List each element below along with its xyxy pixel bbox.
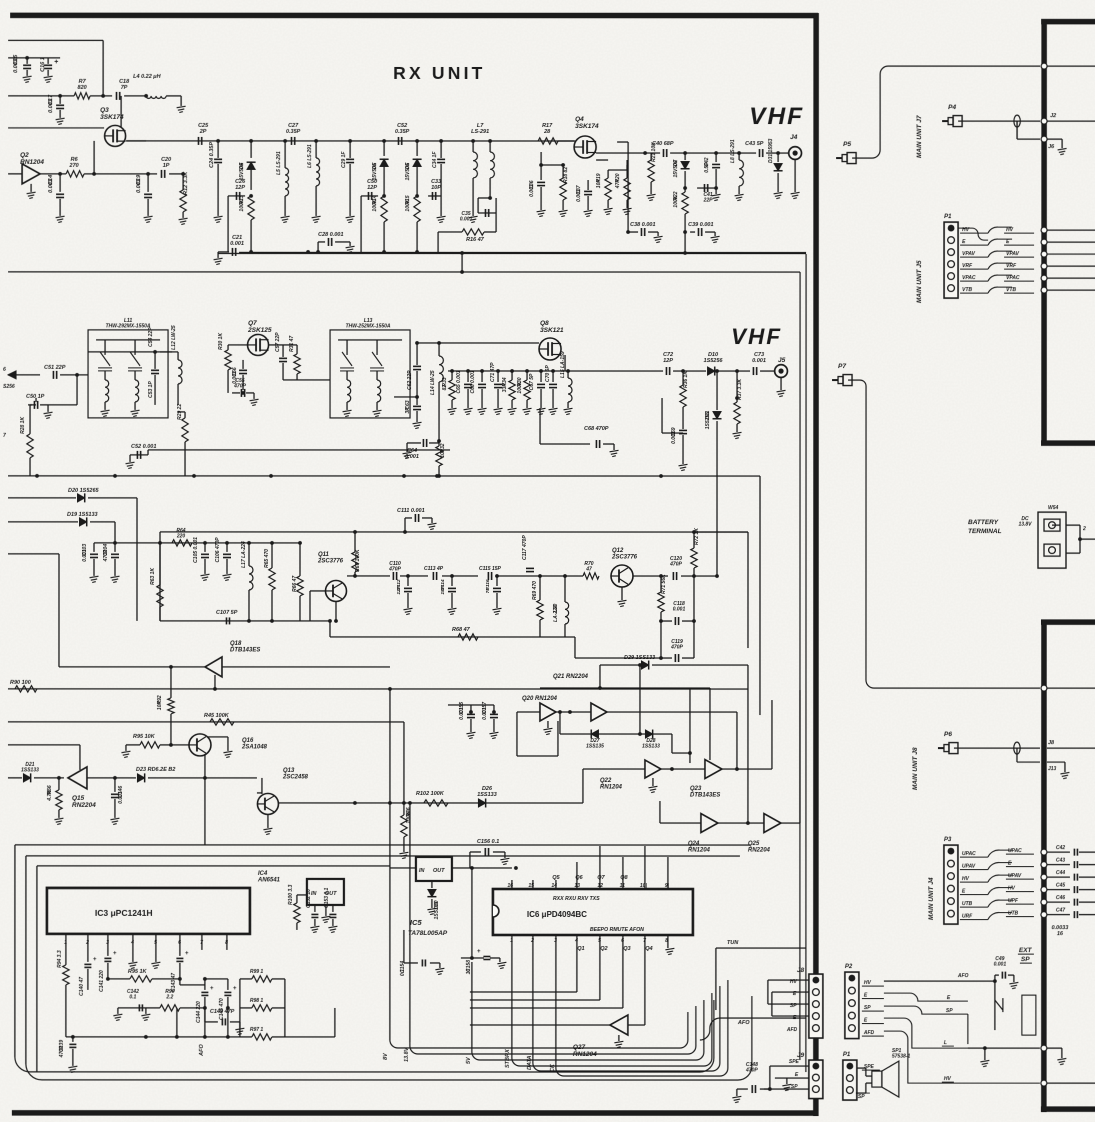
- wire IC5 in: [390, 867, 416, 869]
- J8 wires: [768, 979, 809, 981]
- nested bus 3: [37, 865, 390, 867]
- inductor L20: [563, 574, 567, 578]
- svg-text:URF: URF: [962, 914, 973, 920]
- capacitor C41: [697, 187, 716, 189]
- svg-text:3P: 3P: [405, 407, 411, 414]
- svg-text:0.001: 0.001: [405, 454, 419, 460]
- svg-text:TERMINAL: TERMINAL: [968, 528, 1002, 535]
- svg-text:15V50E: 15V50E: [372, 162, 378, 180]
- resistor R71: [659, 574, 663, 578]
- wire IC6 pin6 route: [622, 944, 624, 1008]
- resistor R21: [650, 153, 652, 160]
- IF box bottom: [160, 620, 330, 622]
- wire Q23 out: [722, 768, 772, 770]
- transistor Q4 3SK174: [574, 136, 596, 158]
- svg-text:7: 7: [200, 940, 203, 946]
- svg-text:470P: 470P: [745, 1068, 758, 1074]
- resistor R46: [403, 803, 405, 815]
- svg-text:R16 47: R16 47: [466, 237, 485, 243]
- IC3 pins: [65, 934, 67, 950]
- svg-text:HV: HV: [962, 876, 970, 882]
- capacitor C38: [640, 228, 642, 236]
- capacitor C153: [332, 905, 334, 912]
- svg-text:470P: 470P: [103, 549, 109, 562]
- IC6 pin8 gnd: [667, 944, 669, 948]
- bus y689: [8, 688, 748, 690]
- svg-text:2SK125: 2SK125: [247, 327, 272, 334]
- svg-text:P5: P5: [843, 141, 851, 148]
- wire Q16 base: [171, 744, 189, 746]
- resistor R66: [58, 778, 60, 790]
- svg-text:0.001: 0.001: [459, 707, 465, 720]
- svg-text:7: 7: [643, 938, 646, 944]
- capacitor C140: [87, 950, 89, 962]
- svg-text:16: 16: [1057, 931, 1064, 937]
- capacitor C50b: [35, 398, 37, 402]
- wire Q11 base: [310, 590, 325, 592]
- svg-text:C16 1: C16 1: [40, 57, 46, 72]
- resistor R68: [458, 634, 478, 640]
- svg-text:P7: P7: [838, 363, 846, 370]
- diode D11: [716, 371, 718, 410]
- bus y476: [8, 475, 760, 477]
- amp Q21: [591, 703, 607, 721]
- capacitor C28: [327, 238, 329, 246]
- svg-text:R30 1K: R30 1K: [218, 333, 224, 350]
- wire IF bottom mid: [330, 636, 575, 638]
- svg-text:EXT: EXT: [1019, 947, 1033, 954]
- wire Q16 collector: [204, 754, 206, 845]
- capacitor C26: [228, 195, 245, 197]
- capacitor C52b: [130, 454, 148, 456]
- wire Q22 gnd: [652, 778, 654, 786]
- svg-text:Q4: Q4: [575, 116, 584, 123]
- P1 border junctions: [1041, 227, 1047, 233]
- bottom bus DATA: [533, 986, 720, 1071]
- svg-text:100K: 100K: [405, 199, 411, 211]
- svg-text:R68 47: R68 47: [452, 627, 471, 633]
- Q20 feedback loop: [516, 712, 518, 756]
- resistor R6: [66, 171, 84, 177]
- resistor R66b: [298, 541, 302, 545]
- capacitor C141: [107, 950, 109, 956]
- svg-text:LS-291: LS-291: [471, 129, 489, 135]
- svg-text:Q5: Q5: [552, 875, 560, 881]
- node R6 left: [58, 172, 62, 176]
- capacitor C67: [539, 369, 543, 373]
- svg-text:P3: P3: [944, 837, 952, 843]
- inductor L15: [566, 369, 570, 373]
- svg-text:R12 3.3K: R12 3.3K: [183, 171, 189, 195]
- svg-text:0.001: 0.001: [136, 179, 142, 193]
- svg-text:UPAC: UPAC: [962, 851, 976, 857]
- capacitor C64: [422, 439, 424, 447]
- main unit border seg2 top cap: [1041, 619, 1095, 625]
- svg-text:DTB143ES: DTB143ES: [230, 648, 260, 654]
- connector J4: [789, 147, 802, 160]
- svg-text:UTB: UTB: [962, 901, 973, 907]
- capacitor C49: [993, 979, 997, 983]
- svg-text:MAIN UNIT J4: MAIN UNIT J4: [928, 877, 935, 920]
- L13 varicap 2: [370, 352, 384, 371]
- diode D23: [137, 774, 144, 782]
- svg-text:L4 0.22 μH: L4 0.22 μH: [133, 74, 161, 80]
- svg-text:C53 1P: C53 1P: [148, 381, 154, 398]
- svg-text:C39 0.001: C39 0.001: [688, 222, 713, 228]
- antenna arrow S256: [8, 371, 16, 379]
- capacitor C56: [239, 369, 247, 371]
- svg-text:15V50E: 15V50E: [239, 162, 245, 180]
- svg-text:470P: 470P: [670, 645, 683, 651]
- svg-text:J13: J13: [1048, 766, 1057, 772]
- svg-text:100K: 100K: [406, 811, 412, 823]
- svg-text:HV: HV: [1008, 886, 1016, 892]
- resistor R12: [181, 172, 185, 176]
- svg-text:1SS133: 1SS133: [642, 744, 660, 750]
- svg-text:100K: 100K: [239, 199, 245, 211]
- svg-text:2: 2: [1082, 526, 1086, 532]
- svg-text:13.8V: 13.8V: [404, 1046, 410, 1062]
- svg-text:12: 12: [597, 883, 603, 889]
- wire Q4 g2: [541, 164, 563, 166]
- inductor L4: [146, 96, 166, 99]
- resistor R13: [248, 196, 254, 220]
- IC6 bottom pins: [511, 935, 513, 944]
- IC6 top pins: [511, 880, 513, 889]
- wire D20 line: [8, 497, 76, 499]
- svg-text:RN1204: RN1204: [688, 848, 711, 854]
- svg-text:C62 22P: C62 22P: [407, 370, 413, 390]
- svg-text:IC3 μPC1241H: IC3 μPC1241H: [95, 908, 153, 918]
- svg-text:1: 1: [64, 940, 67, 946]
- svg-text:1SS133: 1SS133: [477, 792, 497, 798]
- svg-text:IC4: IC4: [258, 871, 268, 877]
- svg-text:C107 5P: C107 5P: [216, 610, 238, 616]
- svg-text:C67 5P: C67 5P: [529, 373, 535, 390]
- svg-text:2SC3776: 2SC3776: [317, 559, 344, 565]
- capacitor C107: [225, 617, 227, 624]
- svg-text:R99 1: R99 1: [250, 969, 264, 975]
- svg-text:Q4: Q4: [645, 946, 652, 952]
- capacitor C43: [759, 149, 761, 157]
- bus A y253: [239, 251, 384, 253]
- transistor Q3 3SK174: [105, 125, 126, 146]
- svg-text:0.35P: 0.35P: [286, 129, 301, 135]
- svg-text:VHF: VHF: [749, 103, 804, 130]
- svg-text:VHF: VHF: [731, 324, 782, 349]
- amp Q18: [205, 657, 222, 677]
- svg-text:4: 4: [574, 938, 578, 944]
- wire IC5 out: [452, 867, 512, 869]
- capacitor C42: [714, 151, 718, 155]
- svg-text:0.001: 0.001: [529, 184, 535, 197]
- node L4 left: [144, 94, 148, 98]
- resistor R95b: [108, 978, 130, 980]
- plug P7: [832, 379, 838, 381]
- svg-text:P2: P2: [845, 964, 853, 970]
- logic vertical 3: [689, 688, 691, 753]
- diode D28: [645, 730, 652, 738]
- resistor R70: [583, 573, 599, 579]
- svg-text:+: +: [477, 949, 481, 955]
- main unit border seg2 bottom cap: [1041, 1106, 1095, 1112]
- P3 wires to border: [988, 850, 1012, 857]
- svg-text:P1: P1: [843, 1052, 851, 1058]
- svg-text:VPAC: VPAC: [1006, 275, 1020, 281]
- svg-text:C52 0.001: C52 0.001: [131, 444, 156, 450]
- svg-text:14: 14: [551, 883, 557, 889]
- IC4 box: [307, 879, 344, 905]
- wire Q3 drain up: [120, 96, 122, 127]
- svg-text:UPAV: UPAV: [1008, 873, 1022, 879]
- wire y745 left: [8, 744, 80, 746]
- svg-text:C140 47: C140 47: [79, 977, 85, 996]
- svg-text:DATA: DATA: [527, 1056, 533, 1070]
- svg-text:C45: C45: [1056, 883, 1065, 889]
- svg-text:SPE: SPE: [789, 1059, 800, 1065]
- wire R92 drop: [170, 667, 172, 698]
- svg-text:C156 0.1: C156 0.1: [477, 839, 499, 845]
- ext sp HV wire: [884, 1031, 1040, 1083]
- resistor R69: [538, 574, 542, 578]
- capacitor C65: [466, 369, 470, 373]
- svg-text:C38 0.001: C38 0.001: [630, 222, 655, 228]
- svg-text:1SS133: 1SS133: [434, 901, 440, 919]
- svg-text:C57 22P: C57 22P: [275, 332, 281, 352]
- capacitor C24: [217, 141, 219, 158]
- capacitor C63: [415, 395, 419, 399]
- capacitor C106: [225, 541, 229, 545]
- svg-text:CK: CK: [550, 1063, 556, 1072]
- inductor L8: [737, 151, 741, 155]
- capacitor C110: [392, 572, 394, 580]
- resistor R92: [168, 698, 174, 714]
- P3 C42-C47 caps: [1047, 851, 1070, 853]
- svg-text:R95 1K: R95 1K: [128, 969, 148, 975]
- svg-text:15P: 15P: [440, 585, 446, 594]
- svg-text:2: 2: [530, 938, 534, 944]
- svg-text:J8: J8: [1048, 740, 1055, 746]
- capacitor C144: [204, 985, 206, 990]
- amp Q20: [540, 703, 556, 721]
- wire Q3 gate line: [8, 127, 104, 129]
- svg-text:0.001: 0.001: [13, 59, 19, 73]
- resistor R94: [65, 950, 67, 965]
- wire Q2 out: [40, 173, 66, 175]
- battery contact 1: [1044, 519, 1060, 531]
- svg-text:8: 8: [225, 940, 228, 946]
- node main D4: [249, 139, 253, 143]
- svg-text:5: 5: [598, 938, 601, 944]
- svg-text:MAIN UNIT J5: MAIN UNIT J5: [916, 260, 923, 303]
- junction J2: [1041, 118, 1047, 124]
- svg-text:6: 6: [178, 940, 181, 946]
- svg-text:+: +: [93, 957, 97, 963]
- node C73 left: [735, 369, 739, 373]
- ext sp L wire: [884, 1018, 968, 1048]
- svg-text:R100 3.3: R100 3.3: [288, 884, 294, 905]
- resistor R72: [692, 574, 696, 578]
- svg-text:Q2: Q2: [20, 152, 29, 159]
- svg-text:L: L: [944, 1040, 947, 1046]
- wire J6: [1016, 121, 1018, 139]
- wire IC6 pin7 route: [644, 944, 646, 1025]
- svg-text:C51 22P: C51 22P: [44, 365, 66, 371]
- IC4 gnd: [325, 905, 327, 916]
- amp Q2: [22, 164, 40, 184]
- svg-text:L6 LS-291: L6 LS-291: [307, 144, 313, 168]
- capacitor C50: [361, 195, 378, 197]
- svg-text:33K: 33K: [502, 383, 508, 393]
- wire L4 to gnd: [166, 95, 181, 97]
- svg-text:C28 0.001: C28 0.001: [318, 232, 343, 238]
- svg-text:C43: C43: [1056, 858, 1065, 864]
- J9 wires: [770, 1065, 809, 1067]
- svg-text:R71 56K: R71 56K: [661, 574, 667, 594]
- svg-text:+: +: [54, 59, 58, 66]
- main unit border top cap: [1041, 19, 1095, 25]
- transistor Q16: [189, 734, 211, 756]
- svg-text:C111 0.001: C111 0.001: [397, 508, 425, 514]
- diode D7: [684, 153, 686, 160]
- battery wires: [1066, 524, 1080, 526]
- L11 top wire: [96, 339, 160, 341]
- svg-text:HV: HV: [864, 980, 872, 986]
- wire Q24 in: [660, 822, 701, 824]
- wire Q18 drop: [214, 675, 216, 689]
- svg-text:Q25: Q25: [748, 841, 760, 847]
- IC6 box: [493, 889, 693, 935]
- wire Q8 in: [417, 342, 539, 344]
- wire P2 HV line: [884, 980, 995, 982]
- node Q3 drain: [101, 94, 105, 98]
- svg-text:+: +: [210, 986, 214, 992]
- node C146: [113, 776, 117, 780]
- resistor R67: [354, 532, 356, 552]
- bottom bus STBRX: [512, 993, 712, 1066]
- diode D26: [478, 799, 485, 807]
- inner section box top edge: [218, 252, 806, 254]
- amp Q27: [610, 1015, 628, 1035]
- svg-text:0.001: 0.001: [118, 791, 124, 804]
- capacitor C19: [147, 174, 149, 192]
- capacitor C71: [496, 369, 500, 373]
- diode D27: [591, 730, 598, 738]
- svg-text:C50 1P: C50 1P: [26, 394, 45, 400]
- diode D4: [250, 141, 252, 158]
- svg-text:Q8: Q8: [540, 320, 549, 327]
- connector J9: [809, 1060, 823, 1099]
- capacitor C15: [26, 58, 28, 64]
- wire D21 line: [8, 777, 22, 779]
- capacitor C39: [697, 228, 699, 236]
- svg-text:OUT: OUT: [433, 868, 445, 874]
- wire IF bottom lower: [575, 657, 661, 659]
- svg-text:0.1: 0.1: [400, 969, 406, 976]
- wire P5 line right of border: [1047, 65, 1095, 67]
- svg-text:C68 470P: C68 470P: [584, 426, 609, 432]
- svg-text:VTB: VTB: [962, 287, 972, 293]
- svg-text:J4: J4: [790, 134, 798, 141]
- capacitor C52a: [398, 137, 400, 145]
- capacitor C158: [470, 956, 474, 960]
- wire Q12 emitter: [621, 587, 623, 600]
- capacitor C14: [59, 174, 61, 192]
- wire P7 down: [848, 380, 1040, 688]
- logic vertical 1: [747, 665, 749, 823]
- svg-text:Q11: Q11: [318, 552, 330, 558]
- IF box left: [159, 532, 161, 621]
- amp Q25: [764, 814, 781, 833]
- svg-text:R65 470: R65 470: [264, 549, 270, 568]
- svg-text:VPAV: VPAV: [1006, 251, 1020, 257]
- ext sp jack wires SP: [884, 1006, 968, 1014]
- svg-text:VPAV: VPAV: [962, 251, 976, 257]
- wire R22 bottom to bus: [684, 232, 686, 253]
- svg-text:Q15: Q15: [72, 795, 85, 802]
- svg-text:100K: 100K: [517, 381, 523, 393]
- resistor R90: [15, 686, 37, 692]
- svg-text:P6: P6: [944, 731, 952, 738]
- capacitor C118: [659, 619, 663, 623]
- capacitor C33: [428, 195, 441, 197]
- svg-text:AFD: AFD: [863, 1030, 875, 1036]
- capacitor C114: [450, 574, 454, 578]
- bottom bus 5V: [472, 1000, 704, 1060]
- svg-text:AN6541: AN6541: [257, 878, 281, 884]
- svg-text:Q7: Q7: [597, 875, 605, 881]
- wire Q20-Q21: [556, 711, 591, 713]
- svg-text:11: 11: [620, 883, 625, 889]
- wire Q18 in: [59, 666, 205, 668]
- svg-text:C44: C44: [1056, 870, 1065, 876]
- capacitor C51: [52, 371, 54, 379]
- logic vertical x760: [759, 532, 761, 715]
- svg-text:12P: 12P: [367, 185, 377, 191]
- svg-text:470P: 470P: [233, 384, 246, 390]
- svg-text:Q3: Q3: [623, 946, 630, 952]
- capacitor C35: [478, 212, 496, 214]
- svg-text:2SC3776: 2SC3776: [611, 555, 638, 561]
- P1 right label lines: [1004, 232, 1034, 234]
- svg-text:Q18: Q18: [230, 641, 242, 647]
- svg-text:2P: 2P: [199, 129, 207, 135]
- resistor R64: [172, 540, 192, 546]
- wire Q24 out: [718, 822, 764, 824]
- wire Q21 out: [607, 711, 737, 713]
- capacitor C157: [492, 710, 496, 714]
- resistor R22: [683, 186, 687, 190]
- wire D28 corner: [671, 734, 673, 753]
- svg-text:R90 100: R90 100: [10, 680, 31, 686]
- wire Q12 out: [633, 575, 668, 577]
- capacitor C20: [161, 170, 163, 178]
- svg-text:UTB: UTB: [1008, 911, 1019, 917]
- svg-text:L15 LA-159: L15 LA-159: [560, 351, 566, 378]
- node main L5: [283, 139, 287, 143]
- inductor L12: [177, 352, 179, 360]
- inner bottom line 2: [26, 996, 752, 1080]
- svg-text:MAIN UNIT J8: MAIN UNIT J8: [912, 747, 919, 790]
- node main C24: [216, 139, 220, 143]
- svg-text:7P: 7P: [485, 587, 491, 594]
- wire Q25 up: [799, 690, 801, 823]
- node Q15 in: [57, 776, 61, 780]
- capacitor C139: [71, 1035, 75, 1039]
- node L7: [471, 139, 475, 143]
- capacitor C21: [231, 248, 233, 256]
- svg-text:0.001: 0.001: [460, 217, 473, 223]
